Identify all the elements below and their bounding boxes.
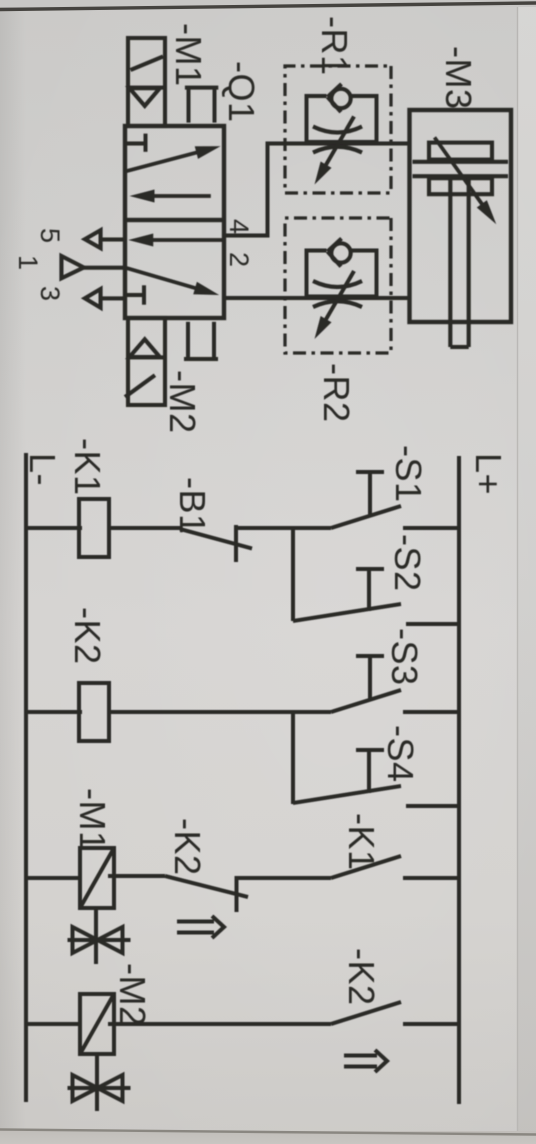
label L- — [22, 453, 63, 486]
solenoid -M1 pilot triangle — [130, 88, 160, 106]
flow control valve -R2 check-valve bypass loop — [307, 251, 377, 297]
svg-text:-S3: -S3 — [384, 628, 425, 686]
svg-text:L+: L+ — [468, 453, 509, 495]
port 5 stub and exhaust — [85, 230, 125, 248]
relay contact -K2 (NO) — [108, 1002, 459, 1024]
svg-text:-M2: -M2 — [162, 370, 203, 434]
port 1 stub and supply triangle — [61, 256, 125, 278]
solenoid actuator -M2 box — [128, 318, 165, 405]
svg-text:-R1: -R1 — [314, 16, 355, 76]
label -S3 — [384, 628, 425, 686]
valve -Q1 left position: blocked port 5 — [125, 134, 146, 152]
port 3 stub and exhaust — [85, 289, 125, 308]
svg-text:-R2: -R2 — [316, 363, 357, 423]
cylinder -M3 adjustable-cushioning arrow — [435, 137, 497, 224]
label -K1 (coil) — [67, 438, 108, 496]
cylinder -M3 cushioning bushes — [429, 143, 492, 195]
parallel branch join rung 2 — [291, 712, 295, 804]
svg-text:-K2: -K2 — [167, 818, 208, 876]
solenoid -M1 winding diagonal — [131, 57, 164, 71]
supply rail L+ — [457, 456, 461, 1104]
svg-text:4: 4 — [224, 219, 254, 234]
label -M3 — [438, 46, 479, 110]
label -M1 (coil) — [72, 788, 113, 852]
flow control valve -R1 check valve seat — [328, 84, 342, 112]
sensor contact -B1 (NC) — [108, 525, 293, 562]
label -M1 (pneumatic) — [168, 23, 209, 87]
solenoid coil -M2 — [26, 994, 114, 1054]
solenoid -M2 winding diagonal — [125, 375, 155, 397]
label -Q1 — [221, 61, 262, 123]
svg-text:2: 2 — [224, 252, 254, 267]
flow control valve -R2 enclosure (dash-dot box) — [285, 218, 391, 353]
solenoid -M2 pilot triangle — [130, 339, 160, 357]
svg-text:-S2: -S2 — [387, 534, 428, 592]
flow control valve -R2 check valve seat — [328, 239, 342, 267]
svg-text:-M2: -M2 — [112, 963, 153, 1027]
pipe from cylinder rod end to valve port 2 — [224, 296, 410, 300]
actuation direction arrow rung 4 — [344, 1050, 387, 1072]
flow control valve -R1 throttle arcs — [313, 127, 362, 153]
pushbutton -S1 (NO) — [293, 472, 459, 528]
valve -Q1 right position: blocked port 3 — [125, 285, 144, 304]
return rail L- — [24, 453, 28, 1102]
wire rung 2 to coil — [108, 710, 293, 714]
port 3 label — [35, 286, 65, 301]
svg-text:-K1: -K1 — [67, 438, 108, 496]
label -R1 — [314, 16, 355, 76]
flow control valve -R1 check valve ball — [331, 89, 350, 108]
flow control valve -R2 adjustability arrow — [315, 271, 355, 339]
valve -Q1 body — [125, 126, 224, 318]
svg-text:-S4: -S4 — [380, 725, 421, 783]
solenoid valve indicator -M1 — [68, 906, 131, 964]
valve -Q1 left end bracket — [185, 88, 218, 123]
svg-text:-M1: -M1 — [72, 788, 113, 852]
label -M2 (coil) — [112, 963, 153, 1027]
port 1 label — [13, 255, 43, 270]
label -S2 — [387, 534, 428, 592]
cylinder -M3 piston rod — [450, 178, 468, 347]
valve -Q1 right position: flow path 4 to 5 — [128, 234, 223, 247]
flow control valve -R2 check valve ball — [331, 243, 350, 262]
solenoid actuator -M1 box — [128, 38, 165, 126]
solenoid coil -M1 — [26, 848, 114, 908]
cylinder -M3 piston — [413, 162, 509, 176]
relay coil -K2 — [26, 683, 109, 741]
pipe from cylinder cap end to valve port 4 — [224, 144, 410, 236]
svg-text:-K2: -K2 — [341, 948, 382, 1006]
label -M2 (pneumatic) — [162, 370, 203, 434]
svg-text:-K2: -K2 — [67, 607, 108, 665]
port 5 label — [35, 228, 65, 243]
svg-text:1: 1 — [13, 255, 43, 270]
label -S1 — [388, 445, 429, 503]
port 2 label — [224, 252, 254, 267]
flow control valve -R1 adjustability arrow — [315, 117, 355, 185]
label -S4 — [380, 725, 421, 783]
svg-text:-B1: -B1 — [172, 477, 213, 535]
actuation direction arrow rung 3 — [177, 916, 224, 938]
label -K1 (contact) — [341, 813, 382, 871]
svg-text:-K1: -K1 — [341, 813, 382, 871]
valve -Q1 left position: flow path 2 to 3 — [130, 190, 211, 203]
cylinder -M3 body — [410, 110, 512, 322]
parallel branch join rung 1 — [291, 528, 295, 621]
svg-text:-S1: -S1 — [388, 445, 429, 503]
pushbutton -S3 (NO) — [293, 656, 459, 712]
port 4 label — [224, 219, 254, 234]
flow control valve -R2 throttle arcs — [313, 281, 362, 307]
label -R2 — [316, 363, 357, 423]
pushbutton -S2 (NO, parallel) — [293, 569, 459, 624]
valve -Q1 right end bracket — [184, 322, 218, 359]
flow control valve -R1 check-valve bypass loop — [307, 96, 377, 142]
svg-text:5: 5 — [35, 228, 65, 243]
flow control valve -R1 enclosure (dash-dot box) — [285, 66, 391, 193]
svg-text:L-: L- — [22, 453, 63, 486]
svg-text:-Q1: -Q1 — [221, 61, 262, 123]
solenoid valve indicator -M2 — [68, 1052, 131, 1111]
svg-text:3: 3 — [35, 286, 65, 301]
relay contact -K2 (NC interlock) — [108, 876, 248, 912]
label -K2 (NC contact) — [167, 818, 208, 876]
label L+ — [468, 453, 509, 495]
relay coil -K1 — [26, 499, 109, 557]
svg-text:-M3: -M3 — [438, 46, 479, 110]
valve -Q1 left position: flow path 1 to 4 — [125, 146, 220, 171]
label -K2 (coil) — [67, 607, 108, 665]
svg-text:-M1: -M1 — [168, 23, 209, 87]
valve -Q1 right position: flow path 1 to 2 — [123, 267, 219, 295]
relay contact -K1 (NO) — [238, 856, 459, 878]
pushbutton -S4 (NO, parallel) — [293, 750, 459, 806]
label -K2 (contact rung 4) — [341, 948, 382, 1006]
label -B1 — [172, 477, 213, 535]
